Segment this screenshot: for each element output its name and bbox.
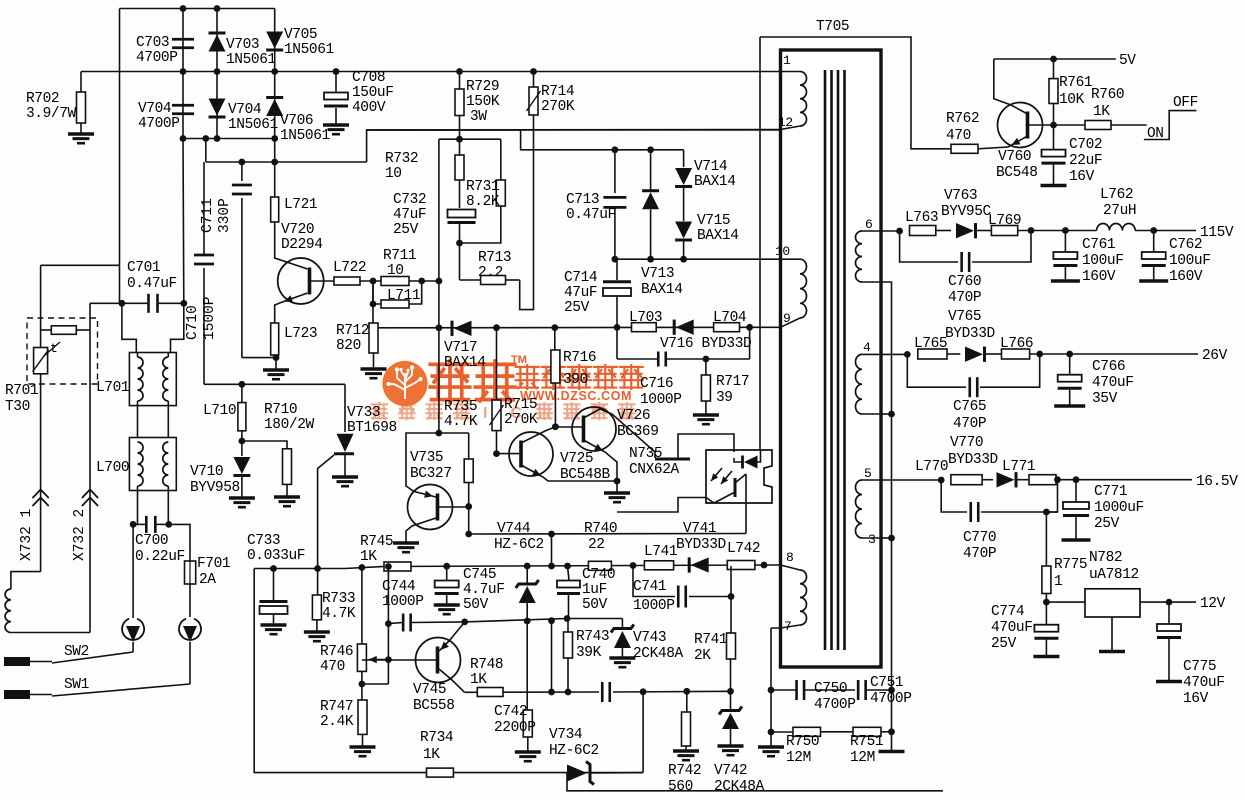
svg-text:BAX14: BAX14	[694, 174, 736, 190]
optocoupler N735 box	[706, 450, 772, 503]
ground V743	[609, 656, 635, 659]
inductor L741	[644, 561, 673, 570]
wire divider res stem	[526, 621, 528, 710]
svg-text:9: 9	[783, 311, 790, 326]
wire V733 gate	[318, 455, 334, 568]
capacitor C716	[657, 352, 660, 367]
wire pin7 drop	[770, 628, 772, 746]
svg-text:6: 6	[865, 217, 872, 232]
svg-text:V741: V741	[683, 521, 716, 537]
svg-text:10: 10	[385, 166, 402, 182]
wire R702 stem	[80, 72, 82, 93]
wire w7 stub	[771, 625, 800, 628]
svg-text:0.22uF: 0.22uF	[135, 549, 185, 565]
svg-text:C760: C760	[948, 274, 981, 290]
ground V742	[718, 744, 744, 747]
wire R713 left	[460, 279, 481, 281]
wire ctrl to rail	[551, 534, 553, 567]
wire 165 out	[1076, 479, 1192, 481]
inductor L771	[1029, 475, 1056, 485]
svg-text:C711: C711	[200, 198, 216, 233]
wire C744 left	[388, 623, 403, 624]
svg-text:V770: V770	[950, 435, 983, 451]
svg-text:115V: 115V	[1200, 225, 1234, 241]
svg-text:V743: V743	[633, 630, 666, 646]
svg-text:7: 7	[784, 619, 791, 634]
capacitor C750	[795, 680, 798, 700]
svg-text:V703: V703	[226, 37, 259, 53]
node C701 R	[180, 300, 187, 307]
node V713 top	[647, 146, 654, 153]
svg-text:V734: V734	[549, 727, 582, 743]
svg-text:C750: C750	[814, 681, 847, 697]
svg-text:1000P: 1000P	[382, 594, 424, 610]
choke L700 box	[129, 438, 176, 491]
resistor R729	[455, 89, 464, 116]
inductor L711	[381, 300, 409, 308]
wire bridge bottom	[183, 138, 275, 140]
node L723 gnd	[273, 354, 280, 361]
wire R716 bot	[554, 383, 556, 427]
wire posistor R	[76, 329, 90, 331]
node R775 feed	[1043, 509, 1050, 516]
wire R717 stem	[705, 359, 707, 375]
wire degauss top	[11, 572, 41, 589]
choke L700 coil R	[163, 442, 168, 486]
wire 115 out	[1135, 230, 1196, 232]
svg-text:C713: C713	[566, 192, 599, 208]
svg-text:R762: R762	[946, 111, 979, 127]
capacitor C708	[324, 93, 348, 100]
dashed enclosure	[27, 318, 98, 384]
svg-text:390: 390	[563, 372, 588, 388]
wire DC bus rail	[81, 71, 799, 73]
wire LED anode	[758, 450, 761, 462]
svg-text:1500P: 1500P	[202, 296, 218, 340]
svg-text:L722: L722	[333, 260, 366, 276]
node C741 right	[728, 593, 735, 600]
svg-text:C733: C733	[247, 533, 280, 549]
resistor R714	[529, 87, 538, 115]
svg-text:R741: R741	[694, 632, 727, 648]
wire pot drop	[387, 567, 389, 624]
node low-a	[548, 689, 555, 696]
svg-text:1uF: 1uF	[582, 582, 607, 598]
wire pin12 rail	[367, 129, 781, 132]
wire R761 bot	[1053, 104, 1055, 126]
wire top rail	[120, 8, 275, 10]
svg-text:16.5V: 16.5V	[1196, 474, 1238, 490]
svg-text:4: 4	[863, 340, 871, 355]
wire pot drop2	[387, 624, 389, 684]
svg-text:270K: 270K	[504, 412, 538, 428]
wire C741 right	[689, 596, 731, 598]
wire R733 gnd	[316, 620, 318, 631]
wire R747 gnd	[362, 734, 364, 746]
svg-text:1: 1	[1054, 574, 1062, 590]
node C700 L	[130, 521, 137, 528]
svg-text:C742: C742	[494, 704, 527, 720]
wire C761 stem	[1064, 231, 1066, 253]
svg-text:N782: N782	[1089, 550, 1122, 566]
node R733	[314, 565, 321, 572]
winding 1-12	[800, 72, 807, 127]
svg-text:R732: R732	[385, 151, 418, 167]
svg-text:V745: V745	[413, 682, 446, 698]
svg-text:330P: 330P	[217, 198, 233, 233]
wire C775 stem	[1168, 602, 1170, 624]
wire sec return	[881, 282, 892, 732]
wire mid drop	[551, 621, 553, 692]
svg-text:X732 2: X732 2	[72, 509, 88, 561]
wire R716 stem	[554, 328, 556, 350]
capacitor C711	[232, 184, 252, 187]
wire mid row	[465, 619, 567, 622]
resistor R733	[312, 595, 321, 620]
wire V745 base	[362, 659, 438, 661]
svg-text:8: 8	[786, 550, 793, 565]
capacitor C774	[1034, 625, 1058, 632]
switch SW2	[4, 657, 30, 666]
wire C762 bot	[1153, 266, 1155, 281]
svg-text:2.2: 2.2	[478, 265, 503, 281]
node L710 top	[239, 381, 246, 388]
svg-text:R745: R745	[360, 534, 393, 550]
node V725 base	[493, 450, 500, 457]
wire R747 stem	[361, 684, 363, 700]
node rail-pin8	[761, 562, 768, 569]
node bus-C	[271, 68, 278, 75]
wire T705 top link	[760, 37, 951, 149]
plug P2	[179, 619, 201, 640]
ground V735	[393, 541, 419, 544]
transformer core	[824, 70, 827, 650]
wire F701 bot	[189, 584, 191, 617]
svg-text:R733: R733	[322, 591, 355, 607]
svg-text:T30: T30	[5, 399, 30, 415]
wire 26 row	[881, 353, 907, 355]
resistor R715	[492, 400, 501, 431]
node p10-b	[647, 256, 654, 263]
svg-text:2.4K: 2.4K	[320, 714, 354, 730]
wire V710 gnd	[241, 476, 243, 498]
svg-text:1N5061: 1N5061	[284, 42, 334, 58]
svg-text:47uF: 47uF	[393, 207, 426, 223]
wire C701 left link	[90, 302, 122, 304]
node fb-b	[551, 324, 558, 331]
wire R713 stem	[459, 243, 461, 280]
svg-text:C765: C765	[953, 399, 986, 415]
svg-text:22: 22	[588, 537, 605, 553]
wire R712 gnd	[373, 353, 375, 368]
capacitor C765	[968, 377, 971, 397]
node c751-right	[888, 687, 895, 694]
bar sec return	[879, 750, 905, 753]
wire C708 gnd stem	[335, 108, 337, 124]
wire V735 emitter feed	[406, 433, 439, 492]
svg-text:160V: 160V	[1082, 269, 1116, 285]
diode V706	[266, 96, 283, 99]
wire C745 gnd stem	[446, 594, 448, 605]
wire c751 right	[866, 689, 892, 691]
plug P1	[122, 619, 144, 640]
node C762	[1150, 227, 1157, 234]
resistor divider	[523, 710, 532, 737]
svg-text:R760: R760	[1091, 87, 1124, 103]
node 12V	[1166, 599, 1173, 606]
svg-text:BYD33D: BYD33D	[676, 537, 726, 553]
svg-text:R715: R715	[504, 397, 537, 413]
ground C708	[323, 123, 349, 126]
inductor L703	[632, 323, 657, 332]
wire C740 bot	[568, 594, 570, 619]
connector X732-1 chevrons	[33, 498, 49, 507]
wire L721-V720	[275, 222, 308, 269]
svg-text:470uF: 470uF	[1183, 675, 1225, 691]
wire V735 base	[438, 506, 469, 508]
svg-text:100uF: 100uF	[1082, 253, 1124, 269]
watermark logo	[382, 361, 427, 406]
svg-text:BYV958: BYV958	[190, 480, 240, 496]
capacitor C704	[172, 104, 194, 107]
node R711 out	[418, 278, 425, 285]
ground R742	[673, 749, 699, 752]
choke L701 coil L	[138, 357, 144, 401]
opto LED	[741, 456, 744, 469]
wire low row	[465, 691, 600, 693]
node base	[1050, 122, 1057, 129]
node C700 R	[165, 521, 172, 528]
svg-text:1000P: 1000P	[633, 598, 675, 614]
svg-text:150uF: 150uF	[352, 85, 394, 101]
wire w3 link	[881, 537, 892, 539]
svg-text:1000uF: 1000uF	[1094, 500, 1144, 516]
potentiometer R746	[357, 644, 366, 671]
node reg in	[1043, 599, 1050, 606]
wire L701 in R	[171, 303, 184, 352]
node chain	[436, 278, 443, 285]
wire C771 stem	[1075, 480, 1077, 502]
transistor V725	[509, 432, 553, 476]
svg-text:BYV95C: BYV95C	[941, 204, 992, 220]
capacitor C745	[435, 581, 459, 588]
wire plug1 out	[132, 642, 134, 652]
svg-text:C710: C710	[185, 305, 201, 340]
wire reg gnd	[1111, 617, 1113, 650]
capacitor C742	[601, 682, 604, 702]
svg-text:BAX14: BAX14	[444, 355, 486, 371]
svg-text:10K: 10K	[1059, 92, 1085, 108]
regulator N782	[1085, 589, 1140, 617]
svg-text:SW2: SW2	[64, 644, 89, 660]
node rail-c745	[443, 563, 450, 570]
wire C710 top	[203, 162, 205, 255]
node low-e	[727, 688, 734, 695]
wire w1 stub bot	[781, 126, 801, 130]
svg-text:C714: C714	[564, 270, 597, 286]
node V717 a	[436, 324, 443, 331]
bar C761	[1051, 279, 1080, 283]
wire C761 bot	[1064, 266, 1066, 281]
wire w6 bot stub	[862, 281, 881, 283]
wire w9 stub	[781, 318, 801, 327]
svg-text:1K: 1K	[360, 549, 377, 565]
wire C708 stem	[335, 72, 337, 93]
wire L700 out L	[133, 486, 137, 524]
svg-text:BC327: BC327	[410, 466, 452, 482]
svg-text:HZ-6C2: HZ-6C2	[549, 743, 599, 759]
svg-text:25V: 25V	[564, 300, 590, 316]
wire R775 feed	[1045, 512, 1047, 566]
wire R710 gnd	[286, 484, 288, 496]
wire C774 stem	[1045, 602, 1047, 625]
node r750-left	[768, 729, 775, 736]
svg-text:L703: L703	[629, 310, 662, 326]
diode V741	[688, 557, 691, 572]
capacitor C732	[448, 210, 476, 218]
wire R742 stem	[686, 691, 688, 712]
ground R710	[274, 495, 300, 498]
svg-text:12V: 12V	[1200, 596, 1226, 612]
wire C770 loop	[941, 480, 967, 512]
svg-text:L741: L741	[644, 544, 677, 560]
svg-text:4700P: 4700P	[138, 116, 180, 132]
opto light arrows	[711, 468, 722, 481]
wire L723 bot	[274, 355, 276, 358]
wire reg in	[1046, 601, 1085, 603]
ground R702	[68, 132, 94, 135]
resistor R712	[369, 323, 378, 353]
svg-text:T705: T705	[816, 19, 849, 35]
wire C741 left	[633, 566, 675, 597]
wire C713 bot	[614, 208, 616, 260]
svg-text:16V: 16V	[1183, 691, 1209, 707]
inductor L710	[238, 403, 246, 431]
node C771	[1073, 476, 1080, 483]
svg-text:BYD33D: BYD33D	[945, 326, 995, 342]
wire R735 stem	[468, 433, 470, 459]
inductor L762	[1097, 223, 1136, 230]
svg-text:4700P: 4700P	[814, 697, 856, 713]
transistor V726	[572, 407, 616, 451]
wire C775 bot	[1168, 638, 1170, 681]
svg-text:BT1698: BT1698	[347, 420, 397, 436]
wire bottom rail	[254, 565, 764, 569]
node wiper	[385, 656, 392, 663]
wire r750-r751	[821, 731, 854, 733]
wire LED wires	[734, 458, 743, 462]
svg-text:BC369: BC369	[617, 424, 659, 440]
wire C700 w1	[133, 523, 146, 525]
resistor R711	[381, 277, 409, 286]
diode V770	[1015, 472, 1018, 487]
node ret-w3	[888, 535, 895, 542]
svg-text:R712: R712	[336, 323, 369, 339]
node C713 top	[612, 146, 619, 153]
wire C700 w2	[155, 523, 169, 525]
wire R741 top	[730, 597, 732, 634]
wire l763-v763	[936, 230, 951, 232]
svg-text:R775: R775	[1054, 557, 1087, 573]
wire R742 gnd stem	[685, 746, 687, 750]
wire C714 stem	[616, 259, 618, 280]
bar N782 gnd	[1099, 650, 1125, 653]
node L711 left	[370, 301, 377, 308]
svg-text:150K: 150K	[466, 94, 500, 110]
svg-text:X732 1: X732 1	[19, 509, 35, 561]
ground pin7	[758, 745, 784, 748]
svg-text:R717: R717	[716, 374, 749, 390]
wire V715 bot	[683, 240, 685, 259]
wire R746 bot	[362, 671, 389, 684]
capacitor C710	[194, 254, 214, 257]
wire v765-l766	[986, 353, 1002, 355]
node V725 coll	[552, 423, 559, 430]
svg-text:L723: L723	[284, 326, 317, 342]
wire HV down	[119, 265, 121, 303]
svg-text:R761: R761	[1059, 75, 1092, 91]
wire opto emitter out	[617, 498, 714, 513]
wire V714-V715	[683, 187, 685, 222]
svg-text:10: 10	[387, 263, 404, 279]
inductor L765	[918, 349, 947, 359]
inductor L763	[910, 226, 936, 236]
wire bottom right seg	[591, 772, 643, 774]
wire choke link R	[167, 401, 169, 441]
svg-text:400V: 400V	[352, 100, 386, 116]
resistor R742	[682, 712, 691, 746]
svg-text:R702: R702	[26, 91, 59, 107]
wire C702 stem	[1053, 125, 1055, 150]
node top-B	[214, 5, 221, 12]
capacitor C775	[1157, 624, 1181, 631]
capacitor C714	[603, 280, 631, 283]
wire C770 right	[981, 480, 1058, 512]
svg-text:C701: C701	[127, 260, 160, 276]
resistor R761	[1049, 79, 1058, 104]
svg-text:1000P: 1000P	[640, 392, 682, 408]
wire R714 stem	[533, 72, 535, 88]
node C740 bottom	[564, 615, 571, 622]
wire opto collector out	[745, 474, 747, 534]
node 26-b	[1036, 351, 1043, 358]
node C733	[270, 565, 277, 572]
svg-text:L742: L742	[727, 541, 760, 557]
wire V713 bot	[650, 210, 652, 260]
svg-text:470P: 470P	[963, 546, 996, 562]
svg-text:10: 10	[775, 244, 790, 259]
node fb-c	[614, 324, 621, 331]
svg-text:180/2W: 180/2W	[264, 417, 315, 433]
node mid-x	[548, 617, 555, 624]
watermark pale slogan	[371, 403, 387, 419]
node emitters	[614, 478, 621, 485]
svg-text:470: 470	[946, 128, 971, 144]
wire F701 link	[169, 524, 190, 561]
wire V742 stem	[730, 691, 732, 709]
diode V713	[642, 189, 659, 192]
switch SW1	[4, 690, 30, 699]
svg-text:3.9/7W: 3.9/7W	[26, 106, 77, 122]
svg-text:V716 BYD33D: V716 BYD33D	[660, 336, 751, 352]
wire C765 loop	[907, 354, 966, 387]
diode V703	[209, 32, 226, 35]
svg-text:27uH: 27uH	[1103, 203, 1136, 219]
wire C710 stem	[203, 268, 205, 384]
wire R761 stem	[1053, 59, 1055, 79]
pot wiper	[369, 659, 388, 661]
svg-text:270K: 270K	[541, 99, 575, 115]
